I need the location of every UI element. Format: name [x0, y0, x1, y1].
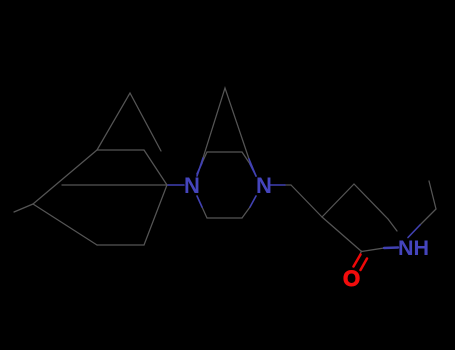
- bond into NH gray half: [388, 219, 397, 231]
- chain diagonal down: [291, 185, 322, 217]
- chain diagonal up: [322, 184, 354, 217]
- carbonyl C gray stub: [360, 251, 362, 255]
- N2 east bond blue half: [270, 184, 285, 186]
- svg-text:N: N: [256, 173, 272, 198]
- wire lower-left edge: [33, 204, 97, 245]
- bond NH up-right gray half: [420, 209, 436, 225]
- ring closure to carbonyl: [322, 217, 361, 251]
- svg-text:NH: NH: [398, 236, 429, 260]
- piperazine N2 ring bonds outer halves: [242, 152, 250, 164]
- wire top-right slant: [144, 150, 167, 185]
- bridge caret over piperazine gray parts: [203, 88, 249, 159]
- N1 ring bond blue halves: [197, 163, 202, 174]
- terminal bond up-left: [429, 181, 436, 209]
- svg-text:O: O: [343, 266, 360, 291]
- chain diagonal down 2: [354, 184, 388, 219]
- NH west bond blue: [384, 246, 398, 249]
- wire top edge: [97, 149, 144, 151]
- carbonyl double bond line 1: [354, 255, 361, 267]
- carbonyl double bond line 2: [361, 259, 368, 271]
- piperazine N1 ring bonds outer halves: [202, 152, 207, 163]
- bridge caret blue feet: [197, 158, 203, 176]
- N1 west bond blue half: [168, 184, 184, 186]
- wire bottom-right slant: [144, 185, 167, 245]
- piperazine ring C-C bonds: [207, 151, 242, 153]
- N2 ring bond blue halves: [250, 164, 256, 176]
- svg-text:N: N: [184, 173, 200, 198]
- bridge caret left cage: [97, 93, 161, 151]
- wire upper-left edge: [33, 150, 97, 204]
- wire bottom edge: [97, 244, 144, 246]
- chain right of N2 gray part: [285, 184, 291, 186]
- wire middle bond: [62, 184, 168, 186]
- methyl stub: [14, 204, 33, 212]
- NH west bond gray half: [362, 248, 385, 252]
- NH north-east bond blue half: [408, 225, 420, 238]
